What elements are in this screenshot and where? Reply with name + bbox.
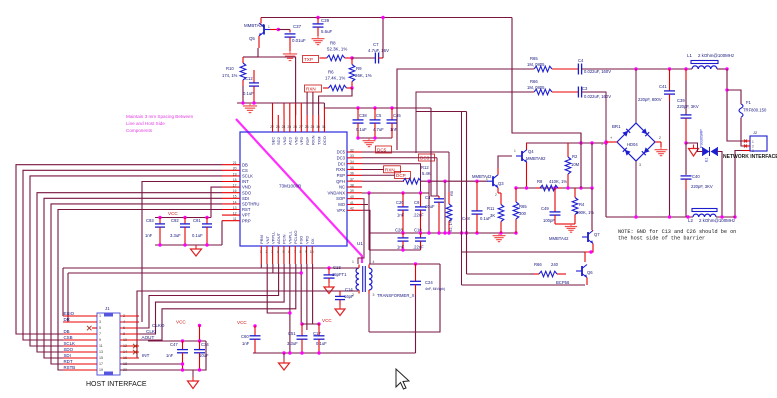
svg-text:0.1uF: 0.1uF: [243, 91, 254, 96]
svg-text:4.7uF: 4.7uF: [373, 127, 384, 132]
junction: [465, 231, 468, 234]
svg-text:3.3uF: 3.3uF: [170, 233, 181, 238]
wire C7 up to rail: [382, 18, 384, 59]
junction: [566, 186, 569, 189]
svg-text:Maintain 3 mm Spacing Between: Maintain 3 mm Spacing Between: [126, 114, 194, 119]
svg-text:15: 15: [233, 195, 237, 199]
svg-text:2: 2: [123, 314, 125, 318]
wire bundle 4: [44, 198, 222, 358]
svg-text:BCP56: BCP56: [556, 280, 570, 285]
capacitor C10 .22uF: [413, 228, 426, 251]
wire weave y308 AOUT: [120, 264, 296, 340]
svg-text:31: 31: [322, 125, 326, 129]
junction: [460, 231, 463, 234]
svg-text:TXP: TXP: [304, 57, 313, 62]
junction: [356, 106, 359, 109]
junction: [684, 141, 687, 144]
wire pin4 col down: [372, 264, 440, 332]
junction: [158, 243, 161, 246]
svg-text:MMBTA42: MMBTA42: [472, 174, 492, 179]
ground R4: [565, 224, 577, 232]
wire BR1 bottom col: [635, 161, 637, 217]
net label DC5 bottom: [376, 146, 392, 153]
svg-text:SDI: SDI: [242, 196, 249, 201]
junction: [475, 180, 478, 183]
wire C4 to L1: [582, 68, 692, 70]
wire E1 right down: [718, 152, 723, 218]
junction: [317, 322, 320, 325]
svg-text:1M, 0805: 1M, 0805: [527, 85, 545, 90]
svg-text:35: 35: [350, 166, 354, 170]
wire Q5 base to C37: [278, 29, 290, 31]
svg-text:DC5: DC5: [377, 148, 387, 153]
wire rail jog: [324, 103, 431, 108]
svg-text:C41: C41: [659, 84, 667, 89]
wire vcc4 row: [302, 323, 319, 325]
net label DCP: [362, 172, 411, 179]
wire VPX to transformer p4: [362, 210, 370, 264]
svg-text:MMBTA42: MMBTA42: [549, 236, 569, 241]
vertical DC3 to rail92: [416, 92, 533, 153]
wire gnd rail 233: [437, 232, 516, 234]
net label RXN right: [362, 166, 401, 173]
junction: [475, 231, 478, 234]
svg-text:18: 18: [233, 178, 237, 182]
svg-text:PSP: PSP: [337, 173, 346, 178]
capacitor C45 1nF: [387, 108, 402, 138]
svg-text:AOUT: AOUT: [276, 232, 281, 244]
capacitor C41 220pF 800V: [638, 69, 675, 217]
x mark J1 right14: [133, 350, 138, 355]
capacitor C4 0.022uF 160V: [578, 58, 611, 75]
svg-text:7: 7: [99, 332, 101, 336]
svg-text:3: 3: [639, 163, 641, 167]
junction: [590, 141, 593, 144]
junction: [282, 351, 285, 354]
svg-text:SDTHRU: SDTHRU: [242, 202, 259, 207]
svg-text:0.022uF, 160V: 0.022uF, 160V: [584, 69, 611, 74]
svg-text:SOP: SOP: [336, 196, 345, 201]
wire branch to F1: [727, 90, 741, 104]
svg-text:19: 19: [99, 368, 103, 372]
junction: [252, 101, 255, 104]
wire col445 down: [444, 181, 446, 233]
wire vcc2 col: [199, 326, 201, 342]
junction: [499, 231, 502, 234]
svg-text:R65: R65: [519, 204, 527, 209]
junction: [553, 186, 556, 189]
junction: [350, 56, 353, 59]
svg-text:5: 5: [99, 326, 101, 330]
wire weave y295 CLKO: [120, 264, 279, 328]
ground cap cluster: [363, 138, 376, 147]
svg-text:DX: DX: [310, 238, 315, 244]
wire pin col k3: [289, 103, 291, 115]
wire weave y273 to ESIO: [62, 268, 64, 316]
svg-text:CS: CS: [242, 168, 248, 173]
capacitor C12 0.1uF: [243, 70, 259, 103]
capacitor C39 5.6uF: [313, 18, 333, 37]
IC 73M1000B body: [240, 132, 347, 246]
capacitor C20 1nF: [396, 193, 409, 233]
svg-text:3: 3: [752, 149, 754, 153]
svg-text:32: 32: [350, 148, 354, 152]
capacitor C28 1nF: [395, 228, 409, 251]
wire BR1 pin1 stub: [606, 141, 617, 143]
note gnd barrier: [618, 229, 736, 242]
x mark connector pin1: [744, 140, 747, 143]
svg-text:41: 41: [350, 201, 354, 205]
svg-text:C9: C9: [414, 200, 420, 205]
resistor R6 17.4K: [323, 70, 352, 91]
ground rail353 triangle: [279, 353, 290, 370]
ground C14 triangle: [335, 305, 345, 316]
capacitor C17 0.1uF: [313, 324, 327, 353]
svg-text:R6: R6: [328, 70, 334, 75]
svg-text:TXM: TXM: [316, 137, 321, 145]
svg-text:SDO: SDO: [242, 190, 252, 195]
svg-text:27: 27: [299, 125, 303, 129]
wire SOP to transformer p1: [358, 199, 364, 264]
svg-text:0.1uF: 0.1uF: [316, 341, 327, 346]
svg-text:26K, 1%: 26K, 1%: [355, 73, 372, 78]
junction: [634, 215, 637, 218]
junction: [300, 351, 303, 354]
junction: [590, 186, 593, 189]
wire R65 to C4: [553, 68, 578, 70]
junction: [725, 88, 728, 91]
svg-text:SCLK: SCLK: [64, 341, 76, 346]
svg-text:VND: VND: [242, 185, 251, 190]
junction: [514, 231, 517, 234]
junction: [205, 243, 208, 246]
svg-text:0.1uF: 0.1uF: [192, 233, 203, 238]
wire row34: [362, 164, 421, 193]
capacitor C3 0.022uF 160V: [578, 86, 611, 99]
wire rail 370: [120, 341, 206, 370]
capacitor C38 0.1uF: [353, 108, 368, 138]
barrier diagonal line: [236, 119, 362, 263]
note maintain spacing: [126, 114, 194, 133]
svg-text:20: 20: [233, 167, 237, 171]
svg-text:VPT: VPT: [242, 213, 251, 218]
svg-text:C13: C13: [333, 265, 341, 270]
resistor R11 3K: [487, 193, 504, 233]
wire row268 to transformer: [63, 267, 356, 269]
wire pin2 row to INT: [120, 291, 358, 358]
svg-text:13: 13: [233, 206, 237, 210]
wire L1 right: [717, 68, 727, 70]
wire pin col k0: [272, 103, 274, 115]
svg-text:PCIN: PCIN: [282, 234, 287, 244]
wire bottom rail 217: [606, 216, 693, 218]
wire rail 341: [148, 340, 206, 342]
svg-text:FSO: FSO: [299, 236, 304, 244]
transistor Q6 BCP56: [556, 265, 593, 286]
svg-text:RST: RST: [242, 207, 251, 212]
svg-text:C24: C24: [425, 280, 433, 285]
svg-text:P3030SRP: P3030SRP: [700, 129, 704, 148]
junction: [381, 16, 384, 19]
resistor R5 62K vertical: [446, 190, 454, 233]
svg-text:VCC: VCC: [322, 318, 332, 323]
wire bundle 1: [23, 170, 222, 340]
junction: [327, 266, 330, 269]
wire pin col k4: [295, 103, 297, 115]
svg-text:2: 2: [752, 145, 754, 149]
svg-text:VPD: VPD: [299, 137, 304, 145]
wire ground rail left: [237, 102, 324, 104]
capacitor C39b 220pF 3KV: [677, 69, 699, 143]
junction: [181, 339, 184, 342]
svg-text:R12: R12: [421, 165, 429, 170]
svg-text:16: 16: [233, 189, 237, 193]
svg-text:CSB: CSB: [64, 335, 73, 340]
svg-text:13: 13: [99, 350, 103, 354]
junction: [668, 215, 671, 218]
junction: [401, 231, 404, 234]
svg-text:VND: VND: [282, 136, 287, 145]
svg-text:HD04: HD04: [627, 142, 638, 147]
svg-text:C37: C37: [293, 24, 302, 29]
wire pin3 down: [369, 294, 372, 333]
wire Q7 emitter row252: [462, 251, 586, 253]
svg-text:C5: C5: [376, 113, 382, 118]
wire L1 down to connector pin1: [727, 69, 743, 141]
svg-text:1: 1: [486, 177, 488, 181]
svg-text:CLKO: CLKO: [152, 323, 165, 328]
x mark connector pin2: [744, 145, 747, 148]
wire BR1 pin1 col: [605, 142, 607, 217]
svg-text:the host side of the barrier: the host side of the barrier: [618, 236, 705, 242]
svg-text:DB: DB: [242, 162, 248, 167]
wire BR1 top col: [635, 69, 637, 123]
wire Q3 emitter to R11: [498, 188, 501, 193]
resistor R12 5.4K: [403, 165, 431, 184]
svg-text:Q4: Q4: [528, 149, 534, 154]
svg-text:VNPLL: VNPLL: [287, 231, 292, 244]
svg-text:17: 17: [233, 184, 237, 188]
wire E1 left: [686, 143, 703, 152]
svg-text:R8: R8: [537, 179, 543, 184]
wire pin col k5: [300, 103, 302, 115]
capacitor C14 16pF: [335, 287, 359, 305]
junction: [288, 351, 291, 354]
wire L2 right: [716, 216, 735, 218]
svg-text:C12: C12: [245, 76, 253, 81]
junction: [589, 250, 592, 253]
resistor R4 590K: [572, 188, 594, 224]
svg-text:62, 1%: 62, 1%: [448, 219, 453, 232]
wire mid power col 512: [512, 18, 581, 144]
svg-text:0.1uF: 0.1uF: [356, 127, 367, 132]
svg-text:7: 7: [294, 250, 296, 254]
junction: [525, 186, 528, 189]
svg-text:VNT: VNT: [265, 235, 270, 244]
wire rail 353: [253, 352, 416, 354]
junction: [198, 368, 201, 371]
svg-text:C51: C51: [288, 331, 296, 336]
svg-text:1: 1: [752, 140, 754, 144]
resistor R8b 410K: [536, 179, 567, 191]
wire col467: [416, 112, 467, 275]
junction: [447, 231, 450, 234]
wire Q4 collector: [526, 143, 528, 150]
junction: [579, 186, 582, 189]
junction: [686, 215, 689, 218]
svg-text:ESIO: ESIO: [64, 311, 75, 316]
inductor L1 2kOhm: [687, 53, 734, 69]
svg-text:C10: C10: [414, 228, 422, 233]
svg-text:36: 36: [350, 172, 354, 176]
junction: [419, 231, 422, 234]
svg-text:C7: C7: [373, 42, 379, 47]
x mark J1 right12: [133, 344, 138, 349]
junction: [181, 368, 184, 371]
wire Q4 box bottom rail188: [516, 187, 592, 189]
svg-text:23: 23: [276, 125, 280, 129]
svg-text:11: 11: [99, 344, 103, 348]
svg-text:DCO: DCO: [322, 136, 327, 145]
wire row37 R12 row: [362, 180, 404, 182]
svg-text:10: 10: [123, 338, 127, 342]
svg-text:220pF, 3KV: 220pF, 3KV: [677, 104, 699, 109]
junction: [414, 262, 417, 265]
svg-text:12: 12: [233, 212, 237, 216]
capacitor C13 15pF: [324, 265, 348, 283]
svg-text:R8: R8: [330, 41, 336, 46]
svg-text:C3: C3: [582, 86, 588, 91]
wire cluster bottom rail250: [369, 249, 421, 251]
svg-text:VPX: VPX: [337, 208, 346, 213]
wire Q4 emitter: [526, 163, 528, 189]
svg-text:VCC: VCC: [168, 211, 178, 216]
svg-text:3: 3: [373, 293, 375, 297]
x mark J1 left: [87, 326, 92, 331]
junction: [158, 216, 161, 219]
wire col429 down: [428, 181, 430, 233]
capacitor C51 3.3uF: [287, 324, 308, 353]
svg-text:F1: F1: [746, 100, 752, 105]
svg-text:25: 25: [287, 125, 291, 129]
svg-text:1nF: 1nF: [242, 341, 250, 346]
wire cap cluster gnd rail: [358, 137, 392, 139]
svg-text:TRANSFORMER_X: TRANSFORMER_X: [377, 293, 415, 298]
svg-text:10uF: 10uF: [425, 204, 435, 209]
resistor R65b 300: [513, 188, 527, 233]
svg-text:16: 16: [123, 356, 127, 360]
svg-text:42: 42: [350, 207, 354, 211]
svg-text:RXN: RXN: [306, 87, 316, 92]
junction: [181, 362, 184, 365]
svg-text:R2: R2: [572, 154, 578, 159]
resistor R65 1M: [527, 56, 553, 72]
svg-text:VND: VND: [293, 136, 298, 145]
transistor Q3 MMBTA42: [472, 174, 504, 197]
svg-text:22: 22: [270, 125, 274, 129]
junction: [401, 248, 404, 251]
wire VNX row rail193: [362, 192, 429, 194]
junction: [514, 186, 517, 189]
junction: [253, 324, 256, 327]
svg-text:21: 21: [233, 161, 237, 165]
svg-text:AC3: AC3: [288, 136, 293, 145]
svg-text:C38: C38: [359, 113, 367, 118]
svg-text:INT: INT: [242, 179, 249, 184]
wire BR1 pin2 to gnd: [655, 142, 661, 147]
svg-text:NOTE: GND for C13 and C26 sh: NOTE: GND for C13 and C26 should be on: [618, 229, 736, 235]
wire weave y302 CLKI: [120, 264, 284, 334]
svg-text:Components: Components: [126, 128, 153, 133]
svg-text:L1: L1: [687, 53, 692, 58]
junction: [300, 322, 303, 325]
svg-text:2 kOhm@100MHz: 2 kOhm@100MHz: [699, 218, 735, 223]
wire bundle 6: [58, 210, 222, 371]
IC right pins: [328, 148, 362, 213]
svg-text:Line and Host Side: Line and Host Side: [126, 121, 165, 126]
wire vcc rail 245: [155, 244, 222, 246]
svg-text:AOUT: AOUT: [142, 335, 155, 340]
svg-text:40: 40: [350, 195, 354, 199]
labels J1 right nets: [142, 323, 165, 358]
svg-text:220pF, 3KV: 220pF, 3KV: [691, 184, 713, 189]
svg-text:1: 1: [99, 314, 101, 318]
svg-text:1nF: 1nF: [397, 213, 405, 218]
svg-text:4: 4: [373, 260, 375, 264]
svg-text:MMBTA06: MMBTA06: [244, 23, 265, 28]
wire vcc rail 217: [155, 217, 211, 219]
capacitor C48 0.1uF: [462, 181, 491, 233]
wire k9 col: [313, 264, 319, 324]
wire PRP route: [221, 221, 223, 245]
wire DC3 row: [362, 157, 437, 159]
junction: [401, 191, 404, 194]
svg-text:DB: DB: [64, 329, 70, 334]
svg-text:15pFT1: 15pFT1: [332, 272, 347, 277]
junction: [437, 231, 440, 234]
wire Q7 emitter chain: [585, 244, 593, 263]
svg-text:52.3K, 1%: 52.3K, 1%: [327, 47, 347, 52]
svg-text:410K, 1%: 410K, 1%: [549, 179, 567, 184]
svg-text:RXN: RXN: [385, 167, 395, 172]
resistor R9 26K: [349, 58, 371, 88]
svg-text:1M, 0805: 1M, 0805: [527, 62, 545, 67]
svg-text:1nF: 1nF: [166, 353, 174, 358]
svg-text:38: 38: [350, 183, 354, 187]
svg-text:1nF: 1nF: [145, 233, 153, 238]
ground C13 triangle: [324, 283, 334, 294]
svg-text:TRF800.150: TRF800.150: [743, 108, 767, 113]
net label VCC1: [168, 211, 178, 216]
svg-text:NETWORK INTERFACE: NETWORK INTERFACE: [723, 154, 777, 160]
svg-text:C4: C4: [425, 195, 431, 200]
svg-text:C49: C49: [541, 206, 549, 211]
ground BR1: [655, 147, 668, 156]
transformer T1: [352, 241, 415, 298]
wire Q7 collector: [592, 230, 594, 231]
wire R8 to C7: [352, 57, 375, 59]
svg-text:34: 34: [350, 160, 354, 164]
svg-text:4nF, 6kV(pk): 4nF, 6kV(pk): [425, 287, 445, 291]
svg-text:Q7: Q7: [594, 232, 600, 237]
wire col592 to Q7: [591, 188, 593, 230]
svg-text:R65: R65: [530, 56, 538, 61]
svg-text:29: 29: [310, 125, 314, 129]
svg-text:73M1000B: 73M1000B: [279, 184, 301, 189]
capacitor C5 4.7uF: [370, 108, 385, 138]
capacitor C49 100pF: [541, 188, 568, 224]
svg-text:L2: L2: [688, 218, 693, 223]
